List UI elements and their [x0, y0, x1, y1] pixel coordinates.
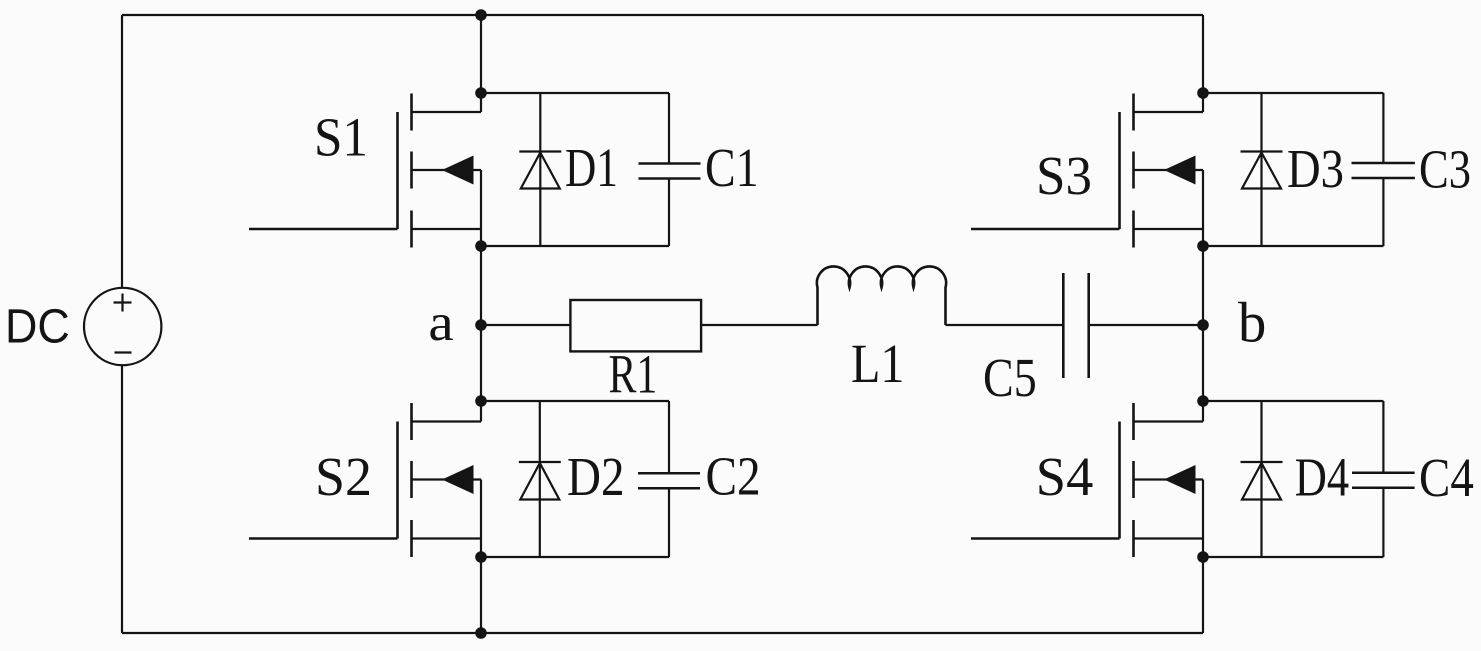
svg-text:C3: C3	[1419, 139, 1471, 200]
node a	[475, 319, 487, 331]
junction bottom rail	[475, 627, 487, 639]
transistor S2	[249, 403, 481, 557]
wire right leg lower	[1202, 480, 1204, 634]
capacitor C5	[1063, 273, 1088, 378]
svg-text:C5: C5	[983, 347, 1037, 408]
transistor S3	[971, 94, 1203, 248]
wire S2 box top	[481, 400, 669, 402]
svg-text:L1: L1	[851, 333, 904, 394]
svg-text:DC: DC	[5, 301, 70, 354]
wire DC positive lead	[121, 15, 123, 288]
svg-text:D4: D4	[1295, 447, 1349, 508]
diode D2	[519, 401, 561, 557]
wire a to R1	[481, 324, 570, 326]
inductor L1	[817, 266, 946, 325]
junction S1 source	[475, 240, 487, 252]
junction S2 source	[475, 551, 487, 563]
svg-text:S2: S2	[315, 446, 372, 507]
wire DC negative lead	[121, 365, 123, 633]
svg-text:D2: D2	[567, 446, 625, 507]
wire S1 box top	[481, 92, 669, 94]
svg-text:S3: S3	[1036, 145, 1092, 206]
svg-text:b: b	[1238, 292, 1266, 355]
capacitor C1	[639, 93, 701, 246]
capacitor C2	[638, 401, 700, 557]
junction S4 drain	[1197, 395, 1209, 407]
wire top rail	[122, 14, 1203, 16]
junction S3 source	[1197, 240, 1209, 252]
junction S3 drain	[1197, 87, 1209, 99]
svg-text:S4: S4	[1036, 446, 1094, 507]
wire right leg upper	[1202, 15, 1204, 112]
wire S4 box top	[1203, 400, 1383, 402]
wire left leg upper	[480, 15, 482, 112]
svg-text:C1: C1	[705, 137, 759, 198]
junction S1 drain	[475, 87, 487, 99]
wire L1 to C5	[946, 324, 1063, 326]
svg-text:S1: S1	[314, 106, 368, 167]
wire R1 to L1	[701, 324, 817, 326]
diode D4	[1241, 401, 1283, 557]
junction S2 drain	[475, 395, 487, 407]
wire S1 box bottom	[481, 245, 669, 247]
wire S2 box bottom	[481, 556, 669, 558]
wire S3 box top	[1203, 92, 1383, 94]
svg-text:R1: R1	[609, 343, 658, 404]
wire left leg lower	[480, 480, 482, 634]
source DC	[84, 288, 161, 365]
capacitor C3	[1352, 93, 1415, 246]
svg-text:C2: C2	[706, 445, 761, 506]
junction top rail	[475, 9, 487, 21]
wire C5 to b	[1090, 324, 1203, 326]
node b	[1197, 319, 1209, 331]
wire right leg middle	[1202, 170, 1204, 422]
diode D1	[519, 93, 561, 246]
wire S4 box bottom	[1203, 556, 1383, 558]
svg-text:D1: D1	[565, 137, 618, 198]
capacitor C4	[1352, 401, 1415, 557]
wire S3 box bottom	[1203, 245, 1383, 247]
junction S4 source	[1197, 551, 1209, 563]
transistor S1	[249, 94, 481, 248]
wire bottom rail	[122, 632, 1203, 634]
svg-text:a: a	[428, 294, 453, 352]
svg-text:D3: D3	[1287, 138, 1344, 199]
transistor S4	[971, 403, 1203, 557]
resistor R1	[570, 300, 701, 351]
svg-text:C4: C4	[1419, 447, 1474, 508]
wire left leg middle	[480, 170, 482, 422]
diode D3	[1241, 93, 1283, 246]
